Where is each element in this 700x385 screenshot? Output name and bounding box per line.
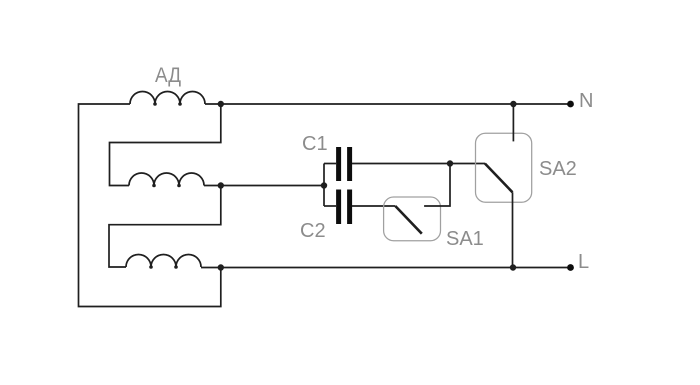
wire Z-link W2 to L3 [109, 186, 221, 268]
node W3 (junction L3 / L rail / outer loop) [218, 264, 224, 270]
wire into C1 left plate [324, 163, 336, 165]
wire L2 to capacitor node [204, 185, 324, 187]
svg-text:N: N [579, 90, 593, 112]
wire into C2 left plate [324, 205, 336, 207]
svg-text:АД: АД [155, 64, 181, 87]
wire SA2 top pin from N rail [512, 104, 514, 141]
node CJ (capacitor bank left junction) [321, 182, 327, 188]
svg-text:C1: C1 [302, 133, 328, 155]
inductor winding L3 [126, 254, 201, 267]
terminal N dot [567, 101, 574, 108]
wire SA1 right contact and riser to node SJ [424, 164, 450, 207]
node W1 (junction L1 / N rail / link down) [218, 101, 224, 107]
wire SA2 bottom pin to L rail [512, 192, 514, 267]
inductor winding L2 [129, 173, 204, 186]
switch SA2 blade [485, 164, 513, 193]
switch SA1 blade [395, 206, 422, 234]
wire C1 to SA2 left contact [352, 163, 485, 165]
wire capacitor left branch vertical [323, 164, 325, 207]
svg-text:C2: C2 [300, 220, 326, 242]
switch SA1 body [384, 197, 441, 241]
terminal L dot [567, 264, 574, 271]
wire Z-link W1 to L2 [110, 104, 221, 186]
inductor winding L1 [130, 92, 205, 105]
capacitor C2 [336, 190, 341, 225]
capacitor C1 [336, 147, 341, 181]
node W2 (junction L2 / link down) [218, 182, 224, 188]
wire outer loop (left vertical, bottom run, up to node W3) [79, 104, 221, 307]
switch SA2 body [476, 133, 532, 202]
wire L3 to L rail [201, 267, 571, 269]
wire L1 to node W1 and N rail [205, 103, 571, 105]
node SJ (junction C1 wire / SA1 riser) [447, 160, 453, 166]
svg-text:SA1: SA1 [446, 228, 484, 250]
svg-text:L: L [578, 251, 589, 273]
svg-text:SA2: SA2 [539, 158, 577, 180]
wire C2 to SA1 left contact [352, 205, 395, 207]
node N-junction (N rail / SA2 top pin) [510, 101, 516, 107]
node L-junction (L rail / SA2 bottom pin) [510, 264, 516, 270]
